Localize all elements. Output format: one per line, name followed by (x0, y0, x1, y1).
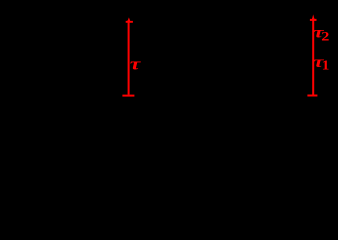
wire (312, 18, 314, 95)
end bar (307, 95, 317, 97)
arrowhead (310, 14, 317, 21)
label tau (130, 56, 142, 74)
label tau2 (313, 24, 329, 44)
svg-text:1: 1 (322, 58, 330, 73)
dimension arrow tau1+tau2 (right) (307, 14, 317, 95)
wire (128, 20, 130, 95)
label tau1 (313, 53, 329, 73)
dimension arrow tau (left) (122, 17, 134, 95)
svg-text:τ: τ (130, 56, 142, 74)
svg-text:2: 2 (321, 30, 329, 44)
arrowhead (126, 17, 133, 22)
end bar (122, 95, 134, 97)
